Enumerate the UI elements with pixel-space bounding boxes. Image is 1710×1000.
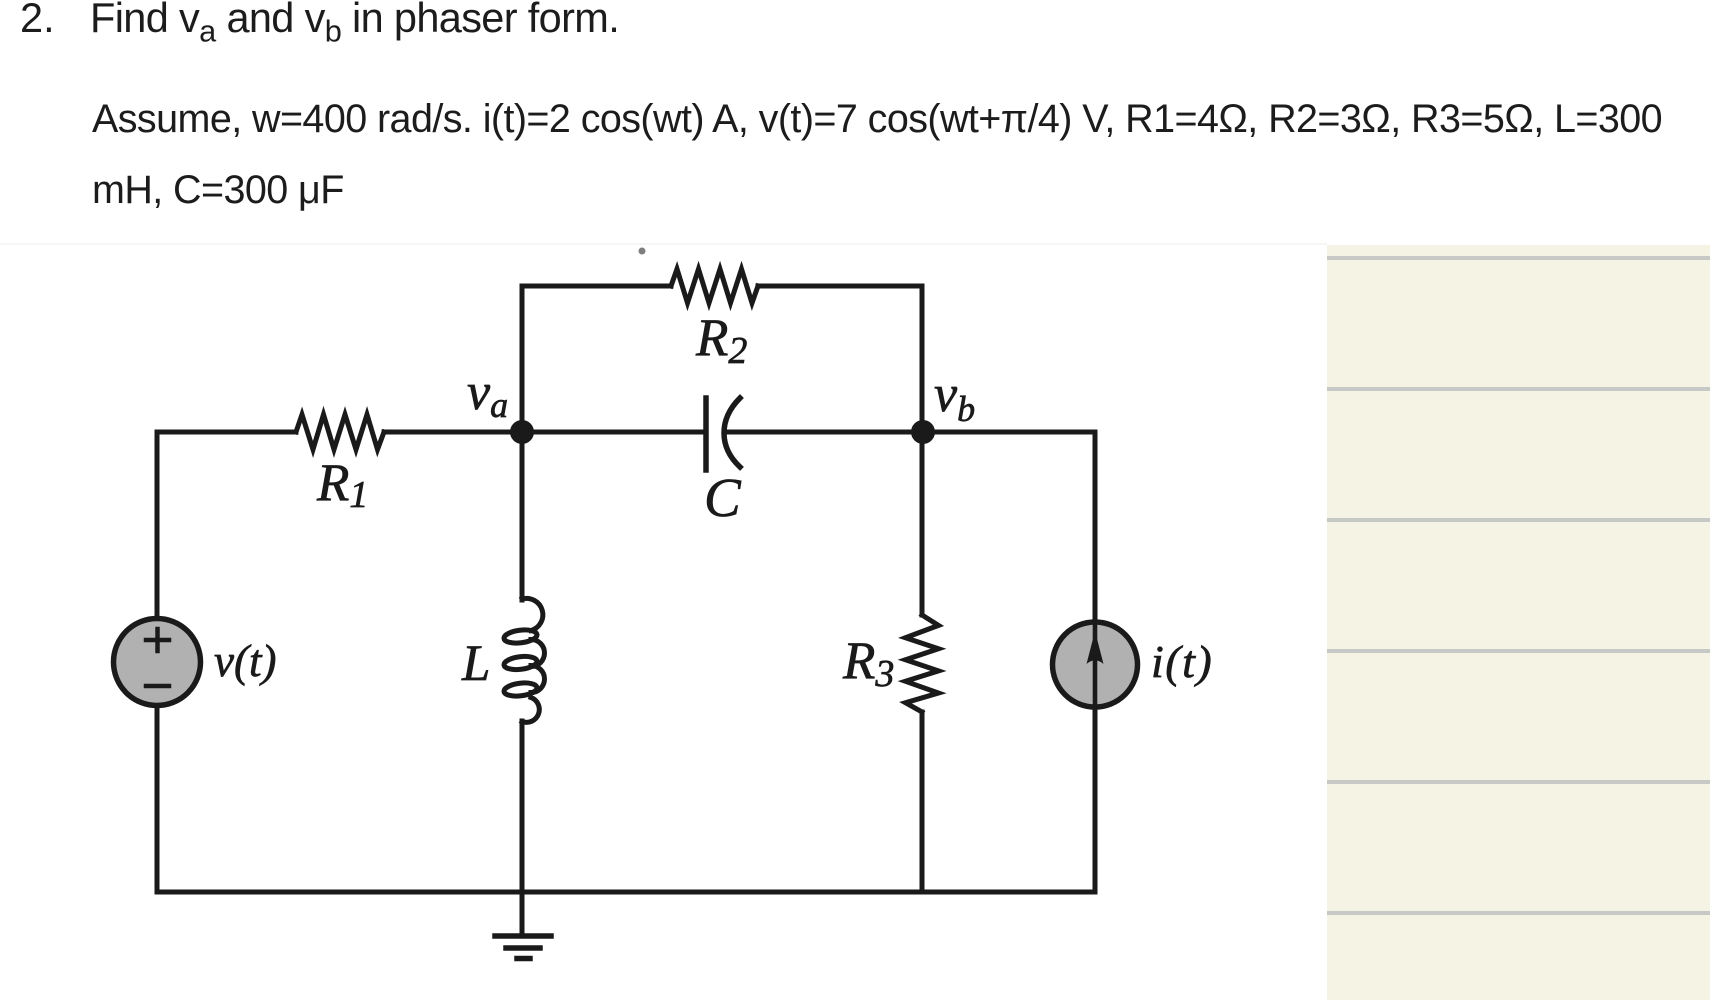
resistor R3 bbox=[906, 615, 939, 712]
ground bbox=[495, 936, 551, 959]
inductor L bbox=[503, 598, 544, 722]
svg-text:v(t): v(t) bbox=[214, 636, 276, 686]
wire: left vertical below voltage source bbox=[155, 706, 160, 892]
voltage source v(t) bbox=[114, 619, 201, 706]
wire: capacitor right plate to far right corner, down to bottom bbox=[727, 432, 1095, 621]
wire: bottom rail bbox=[157, 890, 1095, 895]
svg-text:i(t): i(t) bbox=[1151, 636, 1213, 687]
wire: left vertical above voltage source bbox=[155, 432, 160, 619]
wire: R3 to bottom rail bbox=[920, 712, 925, 892]
note paper panel bbox=[1327, 245, 1710, 1000]
node b dot bbox=[911, 420, 935, 444]
resistor R1 bbox=[296, 415, 384, 450]
wire: top branch va up / across / down to vb bbox=[522, 286, 671, 432]
wire: R1 to capacitor left plate bbox=[384, 430, 706, 435]
wire: R2 to vb corner bbox=[758, 286, 922, 432]
svg-text:R1: R1 bbox=[316, 454, 368, 516]
current source i(t) bbox=[1053, 622, 1138, 707]
resistor R2 bbox=[671, 269, 758, 303]
wire: below current source to bottom wire bbox=[1093, 708, 1098, 892]
artifact dot bbox=[639, 248, 646, 255]
svg-text:R2: R2 bbox=[695, 309, 747, 372]
heading line 1 bbox=[20, 0, 55, 42]
svg-text:vb: vb bbox=[934, 366, 975, 429]
paragraph line 3 bbox=[92, 168, 344, 213]
faint page rule bbox=[0, 243, 1327, 245]
wire: vb down to R3 bbox=[920, 432, 925, 615]
wire: inductor to ground stem bbox=[520, 721, 525, 936]
wire: va down to inductor bbox=[520, 432, 525, 600]
svg-text:va: va bbox=[467, 364, 508, 425]
labels bbox=[214, 309, 1213, 695]
node a dot bbox=[510, 420, 534, 444]
paragraph line 2 bbox=[92, 97, 1662, 142]
svg-text:C: C bbox=[704, 467, 742, 528]
wire: main horizontal left (source to R1) bbox=[157, 430, 296, 435]
svg-text:R3: R3 bbox=[842, 632, 894, 695]
capacitor C bbox=[706, 398, 740, 470]
svg-text:L: L bbox=[461, 636, 490, 692]
